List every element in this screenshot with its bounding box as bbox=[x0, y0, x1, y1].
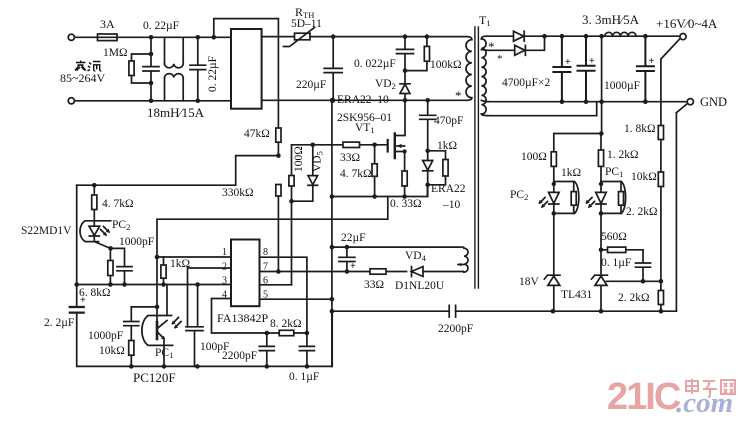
secondary tap wires bbox=[481, 50, 489, 102]
svg-text:1kΩ: 1kΩ bbox=[170, 258, 190, 270]
svg-text:ERA22: ERA22 bbox=[431, 183, 466, 195]
diode VD3 bbox=[423, 161, 433, 171]
node dots input filter bbox=[149, 35, 216, 103]
wire pc2 cathode down bbox=[553, 213, 555, 275]
wire pin6 row bbox=[260, 284, 292, 286]
svg-text:8: 8 bbox=[263, 247, 268, 258]
svg-text:0. 22µF: 0. 22µF bbox=[143, 20, 179, 32]
svg-text:1000pF: 1000pF bbox=[88, 330, 123, 342]
svg-text:–10: –10 bbox=[442, 199, 461, 211]
capacitor 1000pF base bbox=[124, 307, 139, 341]
svg-text:2. 2kΩ: 2. 2kΩ bbox=[618, 292, 650, 304]
svg-text:*: * bbox=[497, 53, 503, 65]
svg-text:1. 8kΩ: 1. 8kΩ bbox=[624, 123, 656, 135]
wire bridge out top bbox=[262, 36, 467, 38]
capacitor 0.1uF out bbox=[636, 250, 651, 281]
svg-text:10kΩ: 10kΩ bbox=[631, 171, 657, 183]
capacitor 2200pF Y bbox=[449, 305, 455, 317]
svg-text:33Ω: 33Ω bbox=[364, 279, 384, 291]
wire pin8 row bbox=[260, 257, 307, 333]
svg-text:FA13842P: FA13842P bbox=[217, 311, 268, 325]
svg-text:0. 33Ω: 0. 33Ω bbox=[390, 198, 422, 210]
svg-text:PC2: PC2 bbox=[510, 189, 528, 202]
resistor 6.8k bbox=[109, 248, 111, 284]
logo chinese dianziwang bbox=[686, 379, 735, 397]
clamp net VD3 + 1k bbox=[428, 151, 446, 197]
terminal input N bbox=[68, 98, 74, 104]
resistor 1k pc2 bbox=[573, 182, 575, 214]
shunt TL431 bbox=[592, 275, 608, 311]
svg-text:S22MD1V: S22MD1V bbox=[21, 225, 72, 237]
capacitor 100pF bbox=[186, 285, 203, 367]
svg-text:22µF: 22µF bbox=[341, 232, 366, 244]
resistor 0.33 bbox=[402, 171, 407, 186]
wire tl431 ref bbox=[607, 280, 661, 282]
svg-text:2. 2µF: 2. 2µF bbox=[44, 317, 74, 329]
capacitor 2200pF timing bbox=[259, 333, 274, 366]
PC1 emitter bbox=[158, 333, 164, 367]
capacitor 4700uF a bbox=[553, 36, 570, 102]
svg-text:PC2: PC2 bbox=[112, 219, 130, 232]
thermistor RTH 5D-11 bbox=[295, 33, 311, 40]
logo 21IC bbox=[607, 376, 733, 419]
svg-text:+: + bbox=[80, 295, 86, 306]
diode VD4 D1NL20U bbox=[411, 267, 413, 277]
svg-text:100Ω: 100Ω bbox=[521, 151, 547, 163]
resistor 1.2k bbox=[598, 150, 603, 166]
resistor 47k startup bbox=[276, 128, 281, 142]
wire pin5 row bbox=[260, 298, 332, 300]
choke L1 18mH/15A top winding bbox=[165, 37, 184, 64]
capacitor 220uF bbox=[324, 37, 342, 101]
inductor 3.3mH/5A bbox=[605, 32, 636, 36]
bridge rectifier bbox=[231, 29, 262, 109]
diode rect top bbox=[487, 31, 680, 41]
wire y-cap rail right bbox=[456, 310, 677, 312]
T1 primary winding bbox=[467, 37, 472, 40]
optocoupler PC2 S22MD1V housing bbox=[80, 221, 111, 242]
svg-text:100kΩ: 100kΩ bbox=[430, 59, 462, 71]
transformer T1 core bbox=[475, 27, 479, 288]
terminal GND bbox=[687, 99, 693, 105]
resistor 10k bbox=[658, 172, 663, 187]
svg-text:560Ω: 560Ω bbox=[601, 231, 627, 243]
svg-text:*: * bbox=[488, 39, 495, 54]
T1 secondary winding bbox=[481, 36, 487, 39]
svg-text:47kΩ: 47kΩ bbox=[244, 128, 270, 140]
svg-text:18mH∕15A: 18mH∕15A bbox=[147, 105, 205, 120]
wire secondary gnd rail bbox=[489, 101, 687, 103]
svg-text:+: + bbox=[589, 56, 595, 67]
svg-text:1. 2kΩ: 1. 2kΩ bbox=[607, 149, 639, 161]
svg-text:5D–11: 5D–11 bbox=[291, 18, 322, 30]
svg-text:*: * bbox=[455, 88, 462, 103]
wire comp feedback bbox=[157, 197, 388, 258]
resistor 4.7k opto bbox=[93, 185, 95, 221]
wire feedback row pin3 bbox=[77, 284, 231, 286]
mosfet VT1 2SK956-01 bbox=[387, 140, 389, 152]
svg-text:1kΩ: 1kΩ bbox=[437, 140, 457, 152]
wire pin7 row bbox=[260, 271, 347, 273]
svg-text:8. 2kΩ: 8. 2kΩ bbox=[270, 318, 302, 330]
light arrows PC2 left bbox=[101, 227, 110, 236]
PC1 base bar bbox=[156, 322, 159, 339]
svg-text:1000µF: 1000µF bbox=[604, 80, 640, 92]
choke L1 bottom winding bbox=[165, 78, 184, 101]
light arrows PC2 right bbox=[540, 198, 548, 208]
PC1 base RC stub bbox=[131, 306, 157, 308]
resistor 1.8k bbox=[658, 126, 663, 140]
svg-text:6: 6 bbox=[263, 276, 268, 287]
resistor 560 bbox=[601, 249, 643, 251]
diode VD2 ERA22-10 bbox=[400, 71, 410, 101]
svg-text:1: 1 bbox=[222, 247, 227, 258]
svg-text:D1NL20U: D1NL20U bbox=[395, 280, 445, 292]
pin numbers left bbox=[222, 247, 268, 301]
svg-text:3: 3 bbox=[222, 276, 227, 287]
light arrows PC1 right bbox=[587, 198, 595, 208]
fuse F1 3A bbox=[98, 34, 118, 41]
wire gnd drop bbox=[676, 104, 687, 311]
svg-text:VD2: VD2 bbox=[375, 78, 396, 91]
wire primary gnd vertical bbox=[331, 100, 333, 366]
resistor 4.7k gate bbox=[374, 145, 376, 197]
resistor snubber 100k bbox=[405, 37, 427, 71]
resistor 2.2k lower bbox=[658, 291, 663, 305]
terminal +16V bbox=[680, 34, 686, 40]
svg-text:85~264V: 85~264V bbox=[60, 71, 105, 85]
wire source return bbox=[332, 185, 428, 197]
wire bridge out bottom bbox=[262, 99, 333, 101]
svg-text:0. 22µF: 0. 22µF bbox=[207, 56, 219, 92]
svg-text:4700µF×2: 4700µF×2 bbox=[502, 77, 551, 89]
optocoupler PC1 right housing bbox=[601, 182, 626, 214]
capacitor X1 0.22uF bbox=[143, 37, 159, 101]
capacitor 0.1uF vref bbox=[299, 333, 314, 366]
resistor 33 gate bbox=[343, 142, 360, 147]
svg-text:PC1: PC1 bbox=[155, 347, 173, 360]
svg-text:ERA22–10: ERA22–10 bbox=[337, 94, 389, 106]
resistor 33 aux bbox=[347, 271, 407, 273]
wire startup tap bbox=[77, 156, 279, 186]
zener 18V bbox=[544, 275, 560, 311]
svg-text:+16V∕0~4A: +16V∕0~4A bbox=[656, 16, 718, 31]
svg-text:+: + bbox=[350, 261, 356, 272]
LED PC1 right bbox=[596, 182, 606, 214]
resistor 1k fb bbox=[163, 257, 165, 285]
svg-text:5: 5 bbox=[263, 290, 268, 301]
svg-text:1kΩ: 1kΩ bbox=[561, 167, 581, 179]
resistor 330k startup bbox=[276, 185, 281, 197]
IC FA13842P bbox=[231, 240, 260, 307]
resistor 1M bbox=[132, 54, 152, 83]
capacitor 1000uF bbox=[637, 36, 654, 102]
svg-text:2200pF: 2200pF bbox=[222, 350, 257, 362]
wire comp drop bbox=[156, 257, 158, 322]
capacitor 2.2uF bbox=[70, 307, 84, 313]
capacitor 470pF bbox=[420, 100, 436, 151]
svg-text:4: 4 bbox=[222, 290, 227, 301]
wire 100ohm branch bbox=[554, 134, 602, 152]
resistor 8.2k bbox=[279, 330, 294, 335]
capacitor 22uF vcc bbox=[332, 247, 355, 271]
LED PC2 right bbox=[549, 182, 559, 214]
svg-text:4. 7kΩ: 4. 7kΩ bbox=[340, 168, 372, 180]
svg-text:100Ω: 100Ω bbox=[293, 146, 305, 172]
aux winding T1 bbox=[347, 247, 464, 248]
svg-text:18V: 18V bbox=[519, 276, 540, 288]
wire AC top bbox=[75, 36, 232, 38]
terminal input L bbox=[68, 34, 74, 40]
wire pin1 row bbox=[157, 256, 231, 258]
LED PC2 left bbox=[89, 221, 110, 249]
wire pin2 row bbox=[188, 268, 232, 327]
wire left rail bbox=[77, 185, 333, 366]
svg-text:21IC: 21IC bbox=[607, 376, 681, 418]
svg-text:PC120F: PC120F bbox=[133, 370, 176, 385]
svg-text:+: + bbox=[649, 56, 655, 67]
resistor 10k base bbox=[129, 341, 134, 356]
glyphs AC chinese bbox=[75, 61, 101, 72]
svg-text:220µF: 220µF bbox=[296, 79, 326, 91]
svg-text:3A: 3A bbox=[100, 17, 115, 31]
svg-text:TL431: TL431 bbox=[561, 289, 593, 301]
diode VD5 bbox=[292, 145, 313, 201]
polarity arrow aux bbox=[458, 264, 464, 266]
svg-text:1MΩ: 1MΩ bbox=[103, 47, 128, 59]
light arrows PC1 bbox=[173, 318, 182, 328]
capacitor snubber 0.022uF bbox=[397, 37, 414, 71]
svg-text:10kΩ: 10kΩ bbox=[99, 345, 125, 357]
svg-text:470pF: 470pF bbox=[434, 115, 463, 127]
wire y-cap rail left bbox=[332, 310, 449, 312]
svg-text:33Ω: 33Ω bbox=[340, 152, 360, 164]
wire sense drop bbox=[661, 39, 680, 311]
svg-text:3. 3mH∕5A: 3. 3mH∕5A bbox=[582, 12, 640, 27]
plus marks caps bbox=[80, 56, 655, 306]
wire drain node bbox=[333, 99, 467, 101]
svg-text:+: + bbox=[565, 57, 571, 68]
svg-text:2: 2 bbox=[222, 262, 227, 273]
svg-text:0. 1µF: 0. 1µF bbox=[289, 371, 319, 383]
wire gate line bbox=[292, 144, 388, 146]
optocoupler PC2 right housing bbox=[554, 182, 579, 214]
svg-text:4. 7kΩ: 4. 7kΩ bbox=[102, 198, 134, 210]
svg-text:PC1: PC1 bbox=[605, 166, 623, 179]
diode rect lower bbox=[489, 36, 545, 55]
svg-text:T1: T1 bbox=[479, 13, 491, 28]
wire pc1 cathode down bbox=[600, 213, 602, 275]
capacitor 1000pF opto bbox=[111, 248, 132, 284]
svg-text:330kΩ: 330kΩ bbox=[222, 187, 254, 199]
wire over bridge bbox=[214, 19, 279, 128]
svg-text:1000pF: 1000pF bbox=[119, 236, 154, 248]
svg-text:GND: GND bbox=[700, 95, 727, 109]
wire pin4 row bbox=[212, 299, 267, 334]
wire led feed vertical bbox=[601, 36, 603, 133]
PC1 collector bbox=[158, 285, 167, 329]
svg-text:2. 2kΩ: 2. 2kΩ bbox=[626, 206, 658, 218]
resistor 100 opto bbox=[551, 152, 556, 167]
svg-text:0. 022µF: 0. 022µF bbox=[354, 58, 396, 70]
svg-text:2200pF: 2200pF bbox=[438, 323, 473, 335]
capacitor X2 0.22uF bbox=[190, 37, 206, 101]
svg-text:0. 1µF: 0. 1µF bbox=[601, 257, 631, 269]
wire AC bottom bbox=[75, 100, 232, 102]
node dots HV rail bbox=[330, 34, 430, 103]
phototransistor PC1 PC120F housing bbox=[142, 316, 173, 346]
svg-text:7: 7 bbox=[263, 262, 268, 273]
resistor 2.2k pc1 bbox=[620, 182, 622, 214]
resistor 100 pulldown bbox=[291, 145, 293, 285]
svg-text:VD4: VD4 bbox=[405, 250, 427, 263]
capacitor 4700uF b bbox=[578, 36, 595, 102]
